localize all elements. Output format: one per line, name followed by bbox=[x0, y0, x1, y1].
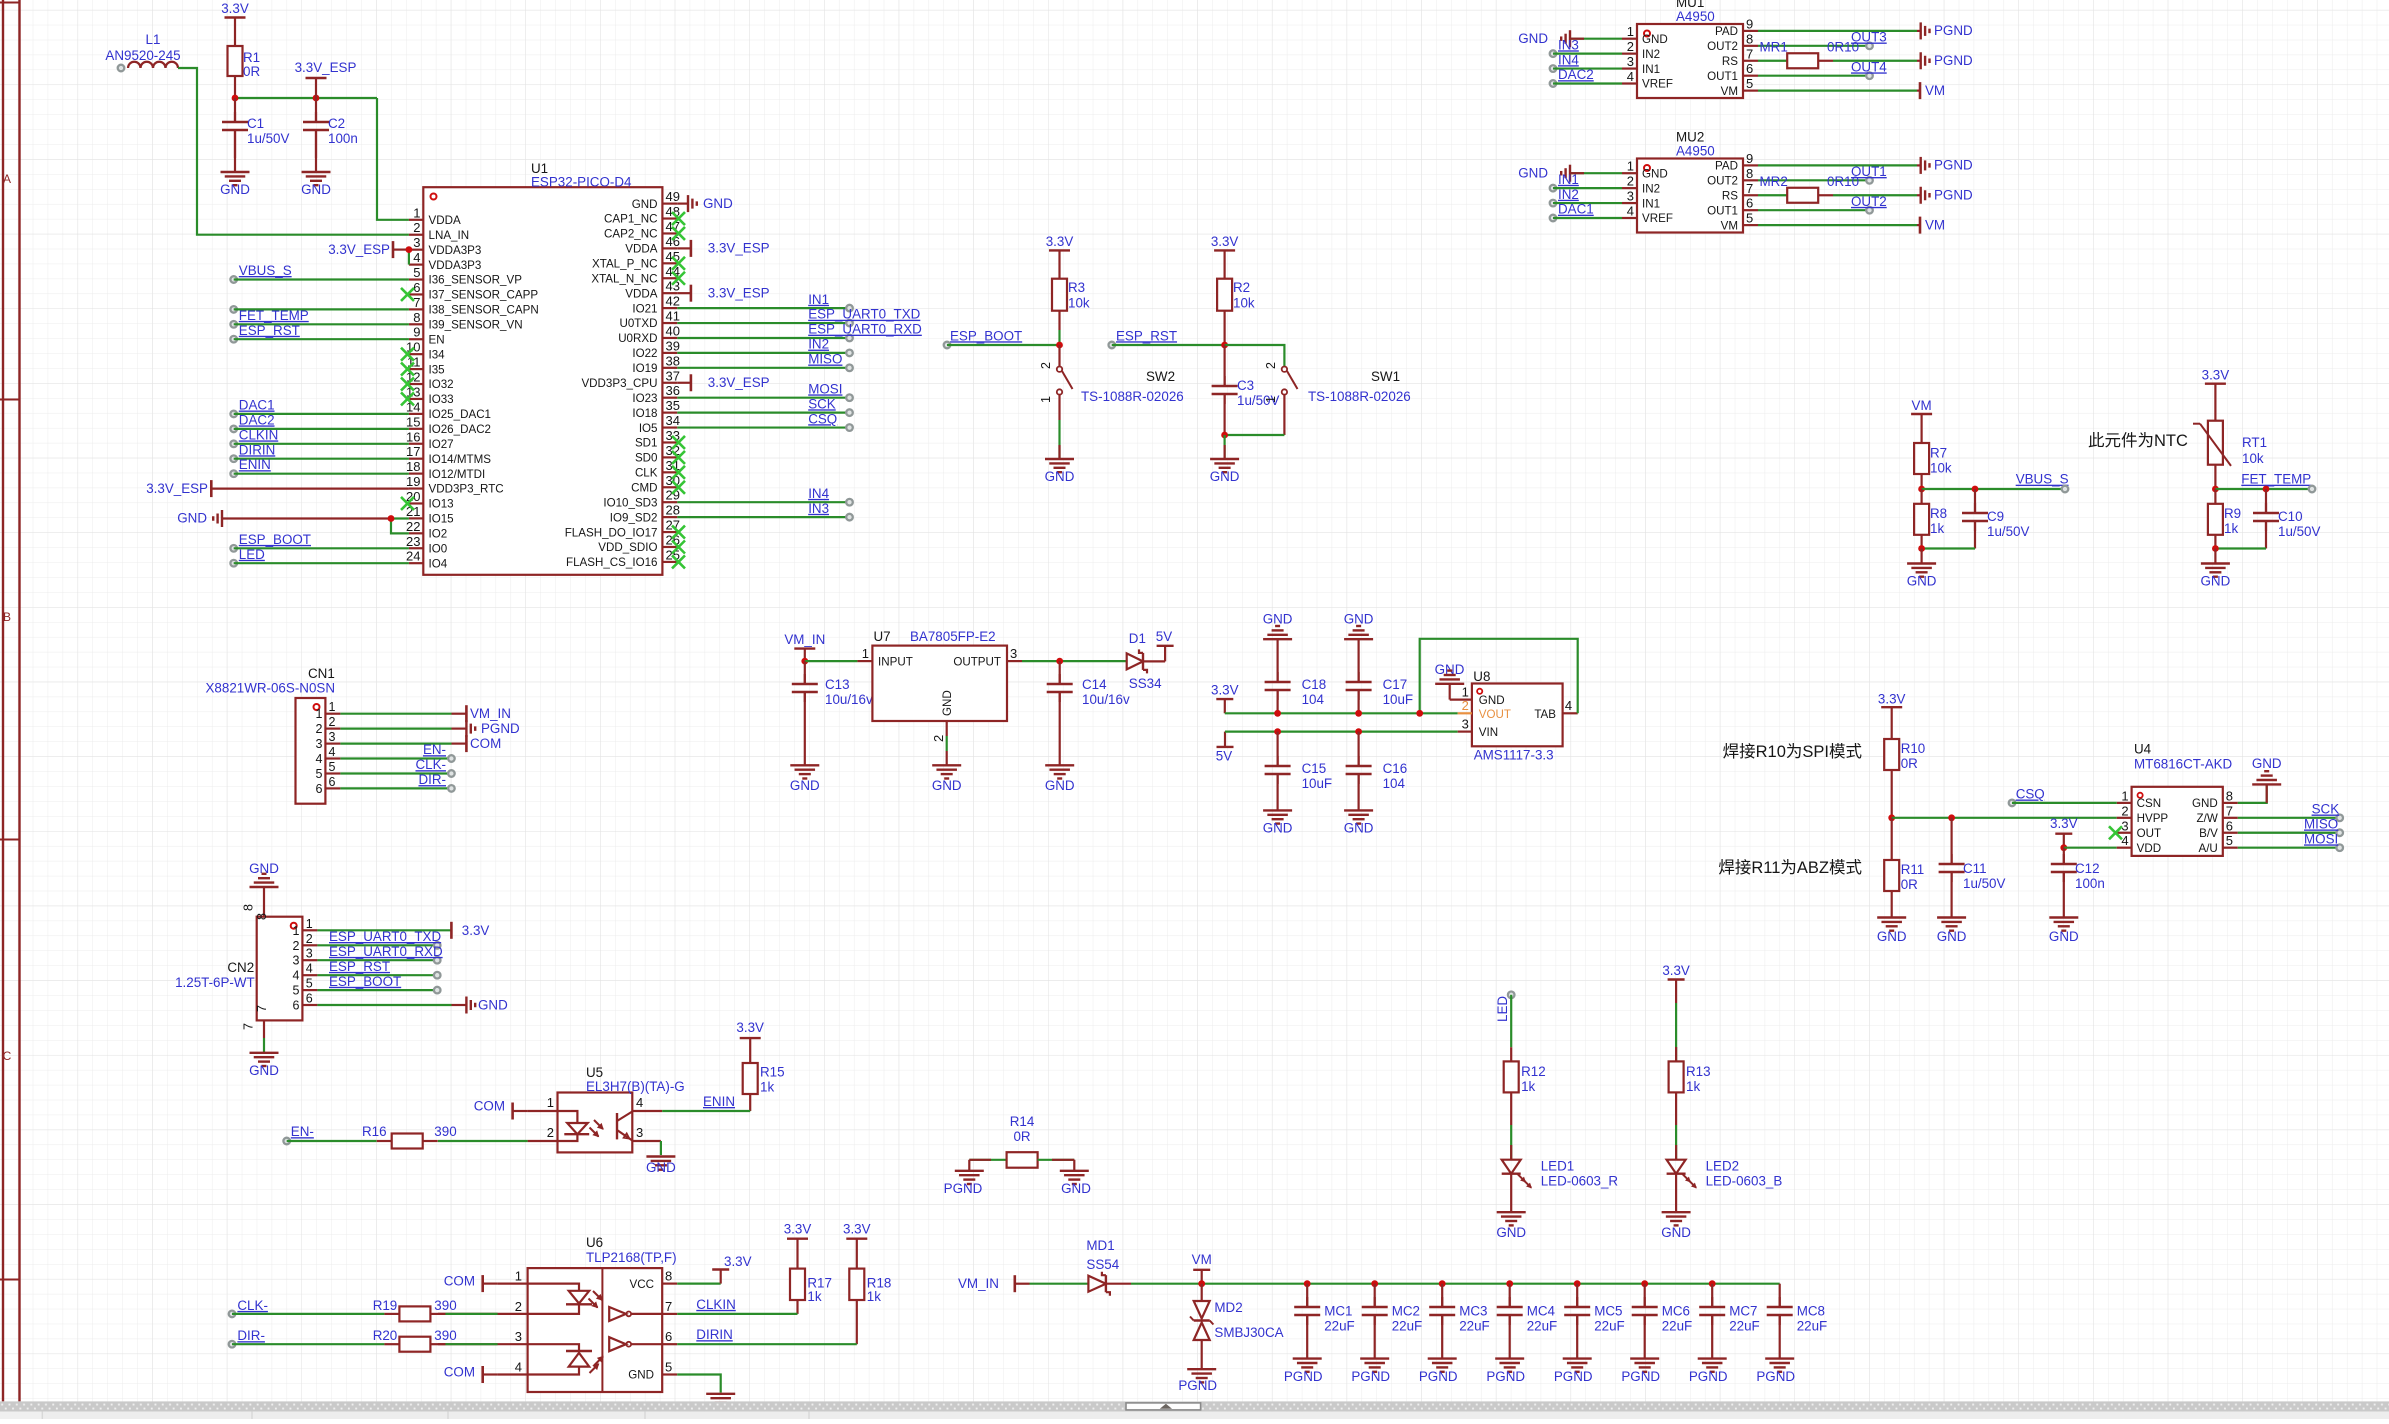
svg-text:100n: 100n bbox=[328, 131, 358, 146]
ground GND under U5 pin3 bbox=[646, 1157, 676, 1176]
U1 pin 12 IO32 bbox=[406, 370, 454, 392]
svg-text:IN3: IN3 bbox=[808, 501, 829, 516]
wire R20 to U6 pin3 bbox=[445, 1343, 497, 1345]
svg-text:COM: COM bbox=[444, 1365, 475, 1380]
svg-text:1: 1 bbox=[862, 646, 869, 661]
junction C11 on HVPP wire bbox=[1948, 814, 1955, 821]
svg-text:C: C bbox=[3, 1049, 12, 1063]
svg-text:GND: GND bbox=[1518, 31, 1548, 46]
power port COM at U6 pin4 bbox=[444, 1365, 498, 1384]
capacitor C14 bbox=[1047, 661, 1130, 751]
svg-text:GND: GND bbox=[1263, 611, 1293, 626]
U6 pin 2 bbox=[438, 1299, 528, 1314]
svg-text:VDDA3P3: VDDA3P3 bbox=[429, 259, 482, 272]
U1 pin 3 VDDA3P3 bbox=[409, 235, 481, 257]
U5 pin 1 bbox=[528, 1095, 558, 1111]
power ground PGND under MD2 bbox=[1178, 1369, 1217, 1393]
U1 pin 21 IO15 bbox=[406, 504, 454, 526]
wire U6 pin5 to ground bbox=[677, 1375, 721, 1393]
svg-text:6: 6 bbox=[306, 992, 313, 1006]
U1 pin 10 I34 bbox=[406, 340, 445, 362]
power ground PGND under MC4 bbox=[1486, 1359, 1525, 1384]
svg-text:2: 2 bbox=[315, 722, 322, 736]
capacitor MC8 22uF bbox=[1767, 1284, 1828, 1359]
svg-text:1k: 1k bbox=[1930, 521, 1944, 536]
svg-text:MC3: MC3 bbox=[1459, 1304, 1487, 1319]
MU1 pin 8 OUT2 bbox=[1707, 31, 1758, 53]
svg-text:VCC: VCC bbox=[630, 1278, 654, 1291]
thermistor RT1 NTC bbox=[2193, 421, 2267, 489]
net label DAC1 at U1 pin14 bbox=[230, 398, 409, 418]
svg-text:37: 37 bbox=[666, 368, 680, 383]
net label ESP_BOOT at U1 pin23 bbox=[230, 532, 409, 552]
svg-text:C15: C15 bbox=[1302, 761, 1327, 776]
svg-text:7: 7 bbox=[2226, 803, 2233, 818]
svg-text:C13: C13 bbox=[825, 677, 850, 692]
svg-text:5: 5 bbox=[1746, 76, 1753, 91]
svg-text:MC1: MC1 bbox=[1324, 1304, 1352, 1319]
svg-text:1: 1 bbox=[292, 924, 299, 938]
svg-text:LED-0603_R: LED-0603_R bbox=[1541, 1174, 1619, 1189]
svg-text:4: 4 bbox=[1627, 69, 1634, 84]
MU1 pin 1 GND bbox=[1622, 24, 1668, 46]
svg-text:3: 3 bbox=[1627, 54, 1634, 69]
svg-text:1.25T-6P-WT: 1.25T-6P-WT bbox=[175, 975, 255, 990]
svg-text:VM_IN: VM_IN bbox=[470, 706, 511, 721]
junction C18 on 3.3V rail bbox=[1274, 710, 1281, 717]
svg-text:GND: GND bbox=[1642, 167, 1668, 180]
svg-text:2: 2 bbox=[292, 939, 299, 953]
svg-text:RS: RS bbox=[1722, 189, 1738, 202]
svg-text:IN1: IN1 bbox=[1642, 197, 1660, 210]
svg-text:3: 3 bbox=[515, 1329, 522, 1344]
svg-text:I34: I34 bbox=[429, 348, 446, 361]
power ground PGND under MC2 bbox=[1351, 1359, 1390, 1384]
svg-text:5: 5 bbox=[413, 265, 420, 280]
U1 pin 43 VDDA bbox=[625, 279, 680, 301]
svg-text:GND: GND bbox=[1479, 694, 1505, 707]
resistor R18 bbox=[849, 1269, 891, 1345]
junction C16 on 5V rail bbox=[1355, 728, 1362, 735]
capacitor C11 bbox=[1939, 818, 2006, 918]
svg-text:VDD3P3_CPU: VDD3P3_CPU bbox=[581, 377, 657, 390]
svg-text:35: 35 bbox=[666, 398, 680, 413]
svg-text:1: 1 bbox=[547, 1095, 554, 1110]
svg-text:RT1: RT1 bbox=[2242, 435, 2267, 450]
ground GND under C14 bbox=[1045, 751, 1075, 793]
svg-text:R15: R15 bbox=[760, 1065, 785, 1080]
capacitor MC6 22uF bbox=[1632, 1284, 1693, 1359]
svg-text:41: 41 bbox=[666, 309, 680, 324]
power ground PGND under R14 left bbox=[944, 1160, 984, 1196]
junction MC3 on VM bus bbox=[1439, 1280, 1446, 1287]
no-connect X on U1 pin 25 bbox=[672, 555, 685, 568]
U1 pin 11 I35 bbox=[407, 355, 445, 377]
svg-text:FET_TEMP: FET_TEMP bbox=[239, 308, 309, 323]
svg-text:22uF: 22uF bbox=[1797, 1319, 1828, 1334]
svg-text:22: 22 bbox=[406, 519, 420, 534]
CN2 pin 1 bbox=[292, 917, 317, 938]
svg-text:IN1: IN1 bbox=[808, 292, 829, 307]
U8 pin 2 VOUT bbox=[1458, 698, 1511, 721]
svg-text:8: 8 bbox=[1746, 31, 1753, 46]
svg-text:MOSI: MOSI bbox=[2304, 831, 2338, 846]
svg-text:MT6816CT-AKD: MT6816CT-AKD bbox=[2134, 757, 2233, 772]
svg-text:3.3V: 3.3V bbox=[843, 1222, 871, 1237]
wire LNA_IN from L1 to U1 pin2 bbox=[178, 68, 409, 235]
svg-text:9: 9 bbox=[1746, 151, 1753, 166]
svg-text:49: 49 bbox=[666, 189, 680, 204]
junction ESP_RST bbox=[1221, 342, 1228, 349]
ground GND under C2 bbox=[301, 140, 331, 197]
wire VM bus bbox=[1131, 1283, 1780, 1285]
sheet border frame left bbox=[0, 0, 20, 1401]
svg-text:CN2: CN2 bbox=[227, 960, 254, 975]
svg-text:R8: R8 bbox=[1930, 506, 1947, 521]
net label DAC2 at MU1 pin4 bbox=[1550, 67, 1622, 87]
net label SCK at U4 pin7 bbox=[2238, 802, 2343, 822]
svg-text:VM_IN: VM_IN bbox=[784, 632, 825, 647]
svg-text:VM: VM bbox=[1925, 83, 1945, 98]
svg-text:104: 104 bbox=[1383, 776, 1406, 791]
no-connect X on U1 pin 11 bbox=[401, 363, 414, 376]
svg-text:5: 5 bbox=[315, 767, 322, 781]
svg-text:I37_SENSOR_CAPP: I37_SENSOR_CAPP bbox=[429, 289, 539, 302]
capacitor MC4 22uF bbox=[1497, 1284, 1558, 1359]
connector CN1 X8821WR-06S-N0SN body bbox=[206, 666, 336, 804]
U1 pin 37 VDD3P3_CPU bbox=[581, 368, 680, 390]
U5 internal LED and phototransistor bbox=[558, 1111, 633, 1141]
LED LED1 LED-0603_R bbox=[1502, 1125, 1619, 1212]
IC MU1 A4950 body bbox=[1637, 0, 1743, 98]
U1 pin 33 SD1 bbox=[635, 428, 680, 450]
power port VM at MU2 pin5 bbox=[1758, 217, 1945, 234]
no-connect X on U1 pin 13 bbox=[401, 392, 414, 405]
svg-text:PGND: PGND bbox=[1934, 23, 1973, 38]
svg-text:ESP_RST: ESP_RST bbox=[239, 323, 300, 338]
svg-text:6: 6 bbox=[2226, 818, 2233, 833]
svg-text:IO21: IO21 bbox=[632, 302, 657, 315]
no-connect X on U1 pin 12 bbox=[401, 378, 414, 391]
U1 pin 2 LNA_IN bbox=[409, 220, 469, 242]
power port COM at U5 pin1 bbox=[474, 1099, 528, 1120]
resistor R1 bbox=[228, 46, 261, 98]
U6 pin 7 bbox=[662, 1299, 677, 1314]
svg-text:3: 3 bbox=[1462, 716, 1469, 731]
svg-text:4: 4 bbox=[292, 969, 299, 983]
svg-text:1k: 1k bbox=[807, 1289, 821, 1304]
svg-text:5V: 5V bbox=[1216, 748, 1232, 763]
no-connect X on U1 pin 26 bbox=[672, 540, 685, 553]
U1 pin 18 IO12/MTDI bbox=[406, 459, 485, 481]
CN2 pin 2 bbox=[292, 932, 317, 953]
svg-text:VREF: VREF bbox=[1642, 78, 1673, 91]
svg-text:1k: 1k bbox=[867, 1289, 881, 1304]
svg-text:3.3V_ESP: 3.3V_ESP bbox=[328, 242, 390, 257]
svg-text:SD0: SD0 bbox=[635, 452, 658, 465]
wire SW1 bottom to C3 bbox=[1225, 434, 1285, 436]
net label DIRIN wire U6 pin6 to R18 bbox=[677, 1327, 857, 1344]
svg-text:GND: GND bbox=[1045, 469, 1075, 484]
svg-text:MD2: MD2 bbox=[1214, 1300, 1242, 1315]
wire ESP_RST to SW1 bbox=[1225, 345, 1285, 366]
wire ESP_BOOT node bbox=[1058, 330, 1060, 345]
svg-text:LED: LED bbox=[1495, 996, 1510, 1022]
power port 3.3V_ESP at U1 pin 43 bbox=[677, 285, 769, 302]
svg-text:VM: VM bbox=[1925, 217, 1945, 232]
no-connect X on U1 pin 47 bbox=[672, 227, 685, 240]
svg-text:22uF: 22uF bbox=[1392, 1319, 1423, 1334]
svg-text:此元件为NTC: 此元件为NTC bbox=[2088, 431, 2188, 450]
U1 pin 27 FLASH_DO_IO17 bbox=[565, 518, 680, 540]
svg-text:IN2: IN2 bbox=[1642, 48, 1660, 61]
net label ESP_UART0_TXD at U1 pin 41 bbox=[677, 307, 920, 327]
junction C12 on VDD wire bbox=[2060, 844, 2067, 851]
resistor MR1 0R10 at MU1 pin7 RS bbox=[1758, 39, 1859, 68]
U1 pin 48 CAP1_NC bbox=[604, 204, 680, 226]
svg-text:GND: GND bbox=[703, 196, 733, 211]
svg-text:1k: 1k bbox=[1686, 1079, 1700, 1094]
svg-text:IO27: IO27 bbox=[429, 438, 454, 451]
svg-text:DAC1: DAC1 bbox=[1558, 202, 1594, 217]
svg-text:5: 5 bbox=[665, 1360, 672, 1375]
junction C3 bottom bbox=[1221, 432, 1228, 439]
power ground PGND under MC5 bbox=[1554, 1359, 1593, 1384]
svg-text:PGND: PGND bbox=[944, 1181, 983, 1196]
MU1 pin 9 PAD bbox=[1715, 16, 1758, 38]
U1 pin 38 IO19 bbox=[632, 353, 680, 375]
svg-text:R12: R12 bbox=[1521, 1064, 1546, 1079]
svg-text:0R10: 0R10 bbox=[1827, 39, 1859, 54]
U5 pin 3 bbox=[632, 1125, 661, 1141]
svg-text:10k: 10k bbox=[1930, 461, 1952, 476]
svg-text:U0TXD: U0TXD bbox=[619, 317, 657, 330]
svg-text:ESP_BOOT: ESP_BOOT bbox=[950, 328, 1022, 343]
net label EN- at CN1 pin4 bbox=[340, 742, 454, 762]
U1 pin 17 IO14/MTMS bbox=[406, 444, 491, 466]
svg-text:C16: C16 bbox=[1383, 761, 1408, 776]
svg-text:IO12/MTDI: IO12/MTDI bbox=[429, 468, 486, 481]
power flag 3.3V (top of R1) bbox=[221, 1, 249, 46]
svg-text:0R: 0R bbox=[1013, 1129, 1030, 1144]
power flag 3.3V (top of R2) bbox=[1211, 234, 1239, 279]
power ground PGND under MC6 bbox=[1621, 1359, 1660, 1384]
svg-text:PGND: PGND bbox=[1934, 158, 1973, 173]
svg-text:PGND: PGND bbox=[1934, 187, 1973, 202]
svg-text:C3: C3 bbox=[1237, 378, 1254, 393]
U6 pin 4 bbox=[498, 1360, 528, 1375]
svg-text:22uF: 22uF bbox=[1324, 1319, 1355, 1334]
capacitor C1 bbox=[222, 98, 290, 158]
U1 pin 34 IO5 bbox=[639, 413, 680, 435]
svg-text:R3: R3 bbox=[1068, 280, 1085, 295]
resistor R12 bbox=[1504, 1047, 1546, 1125]
svg-text:7: 7 bbox=[255, 1005, 269, 1012]
no-connect X on U1 pin 6 bbox=[401, 288, 414, 301]
svg-text:R10: R10 bbox=[1901, 741, 1926, 756]
svg-text:7: 7 bbox=[1746, 46, 1753, 61]
svg-text:3: 3 bbox=[315, 737, 322, 751]
svg-text:GND: GND bbox=[2192, 797, 2218, 810]
capacitor C3 bbox=[1212, 345, 1280, 435]
U1 pin 31 CLK bbox=[635, 458, 680, 480]
IC U4 MT6816CT-AKD body bbox=[2132, 742, 2233, 856]
svg-text:GND: GND bbox=[1061, 1181, 1091, 1196]
power port 3.3V_ESP at U1 pin3 bbox=[328, 241, 409, 258]
svg-text:CSN: CSN bbox=[2137, 797, 2161, 810]
svg-text:GND: GND bbox=[1344, 820, 1374, 835]
junction at C10 top bbox=[2263, 486, 2270, 493]
U7 pin 1 INPUT bbox=[857, 646, 912, 669]
svg-text:IN4: IN4 bbox=[1558, 52, 1579, 67]
U1 pin 1 VDDA bbox=[409, 205, 461, 227]
svg-text:X8821WR-06S-N0SN: X8821WR-06S-N0SN bbox=[206, 681, 336, 696]
net label FET_TEMP at U1 pin8 bbox=[230, 308, 409, 328]
U1 pin 40 U0RXD bbox=[618, 323, 680, 345]
svg-text:IN2: IN2 bbox=[1558, 187, 1579, 202]
svg-text:ESP_UART0_RXD: ESP_UART0_RXD bbox=[808, 322, 922, 337]
ground GND under U7 bbox=[932, 751, 962, 793]
junction C17 on 3.3V rail bbox=[1355, 710, 1362, 717]
svg-text:2: 2 bbox=[306, 932, 313, 946]
net label IN1 at U1 pin 42 bbox=[677, 292, 853, 312]
svg-text:1: 1 bbox=[2121, 788, 2128, 803]
power ground PGND under MC8 bbox=[1756, 1359, 1795, 1384]
net label CSQ at U1 pin 34 bbox=[677, 411, 853, 431]
LED LED2 LED-0603_B bbox=[1667, 1125, 1783, 1212]
ground GND under R14 right bbox=[1060, 1160, 1091, 1196]
svg-text:SCK: SCK bbox=[808, 396, 836, 411]
svg-text:10k: 10k bbox=[1233, 296, 1255, 311]
svg-text:3: 3 bbox=[292, 954, 299, 968]
net label SCK at U1 pin 35 bbox=[677, 396, 853, 416]
svg-text:R13: R13 bbox=[1686, 1064, 1711, 1079]
svg-text:AMS1117-3.3: AMS1117-3.3 bbox=[1474, 748, 1554, 763]
wire R19 to U6 pin2 bbox=[445, 1313, 497, 1315]
ground GND under R2 bbox=[1210, 435, 1240, 484]
net label CLK- at CN1 pin5 bbox=[340, 757, 454, 777]
svg-text:IN4: IN4 bbox=[808, 486, 829, 501]
net label OUT1 at MU2 pin8 OUT2 bbox=[1758, 164, 1887, 184]
net label IN1 at MU2 pin2 bbox=[1550, 172, 1622, 192]
net label MISO at U4 pin6 bbox=[2238, 816, 2343, 836]
svg-text:39: 39 bbox=[666, 338, 680, 353]
junction VBUS_S at R7/R8 bbox=[1918, 486, 1925, 493]
U6 pin 6 bbox=[662, 1329, 677, 1344]
svg-text:IO13: IO13 bbox=[429, 498, 454, 511]
svg-text:U4: U4 bbox=[2134, 742, 2152, 757]
svg-text:IO5: IO5 bbox=[639, 422, 658, 435]
svg-text:19: 19 bbox=[406, 474, 420, 489]
U1 pin 41 U0TXD bbox=[619, 309, 679, 331]
svg-text:390: 390 bbox=[434, 1298, 456, 1313]
svg-text:4: 4 bbox=[2121, 833, 2128, 848]
svg-text:PGND: PGND bbox=[1486, 1369, 1525, 1384]
wire U5 pin3 to ground bbox=[660, 1141, 662, 1155]
power port COM at CN1 pin3 bbox=[340, 735, 501, 752]
power port VM_IN at U7 input bbox=[784, 632, 825, 661]
net label CLKIN wire U6 pin7 to R17 bbox=[677, 1297, 797, 1314]
MU2 pin 7 RS bbox=[1722, 181, 1758, 203]
svg-text:IO10_SD3: IO10_SD3 bbox=[603, 496, 657, 509]
svg-text:C11: C11 bbox=[1963, 861, 1987, 876]
svg-text:3.3V: 3.3V bbox=[1211, 234, 1239, 249]
U1 pin 8 I39_SENSOR_VN bbox=[409, 310, 523, 332]
svg-text:IO15: IO15 bbox=[429, 513, 454, 526]
svg-text:4: 4 bbox=[329, 745, 336, 759]
svg-text:R7: R7 bbox=[1930, 446, 1947, 461]
svg-text:21: 21 bbox=[406, 504, 420, 519]
svg-text:9: 9 bbox=[413, 325, 420, 340]
svg-text:VM: VM bbox=[1912, 398, 1932, 413]
wire 3.3V_ESP down to U1 pin1 bbox=[377, 98, 409, 220]
push button SW1 bbox=[1264, 362, 1411, 435]
junction MC6 on VM bus bbox=[1641, 1280, 1648, 1287]
U1 pin 39 IO22 bbox=[632, 338, 680, 360]
U1 pin 46 VDDA bbox=[625, 234, 680, 256]
svg-text:LED1: LED1 bbox=[1541, 1159, 1575, 1174]
ground GND above C18 bbox=[1263, 611, 1293, 682]
capacitor C12 bbox=[2051, 848, 2105, 918]
no-connect X on U4 pin3 bbox=[2109, 826, 2122, 839]
ground GND above C17 bbox=[1344, 611, 1374, 682]
U1 pin 23 IO0 bbox=[406, 534, 447, 556]
horizontal scrollbar bbox=[0, 1401, 2389, 1419]
svg-text:6: 6 bbox=[329, 775, 336, 789]
wire R16 to U5 pin2 bbox=[438, 1140, 528, 1142]
svg-text:3.3V: 3.3V bbox=[2050, 816, 2078, 831]
svg-text:A: A bbox=[3, 172, 11, 186]
svg-text:2: 2 bbox=[1039, 362, 1053, 369]
U1 pin 24 IO4 bbox=[406, 549, 448, 571]
svg-text:PGND: PGND bbox=[1284, 1369, 1323, 1384]
svg-text:5: 5 bbox=[329, 760, 336, 774]
ground port GND at CN2 pin6 bbox=[317, 997, 508, 1014]
TVS diode MD2 SMBJ30CA bbox=[1190, 1284, 1284, 1370]
svg-text:L1: L1 bbox=[146, 32, 161, 47]
svg-text:R14: R14 bbox=[1010, 1114, 1035, 1129]
svg-text:1: 1 bbox=[1627, 159, 1634, 174]
net label VBUS_S at U1 pin5 bbox=[230, 263, 409, 283]
MU2 pin 1 GND bbox=[1622, 159, 1668, 181]
resistor R11 bbox=[1884, 818, 1924, 918]
svg-text:U0RXD: U0RXD bbox=[618, 332, 657, 345]
no-connect X on U1 pin 20 bbox=[401, 497, 414, 510]
svg-text:3.3V_ESP: 3.3V_ESP bbox=[146, 481, 208, 496]
svg-text:3.3V: 3.3V bbox=[1662, 963, 1690, 978]
power port 3.3V_ESP at U1 pin 37 bbox=[677, 374, 769, 391]
svg-text:3.3V_ESP: 3.3V_ESP bbox=[708, 375, 770, 390]
svg-text:FLASH_CS_IO16: FLASH_CS_IO16 bbox=[566, 556, 658, 569]
diode MD1 SS54 bbox=[1086, 1238, 1131, 1296]
svg-text:3.3V: 3.3V bbox=[724, 1254, 752, 1269]
junction MD2 on VM bus bbox=[1198, 1280, 1205, 1287]
resistor R9 bbox=[2208, 489, 2241, 549]
svg-text:IN2: IN2 bbox=[1642, 182, 1660, 195]
svg-text:PGND: PGND bbox=[481, 721, 520, 736]
svg-text:DIR-: DIR- bbox=[237, 1328, 265, 1343]
junction at R1/C1 bbox=[232, 95, 239, 102]
ground GND under C16 bbox=[1344, 796, 1374, 835]
svg-text:C17: C17 bbox=[1383, 677, 1408, 692]
svg-text:GND: GND bbox=[632, 198, 658, 211]
svg-text:GND: GND bbox=[1642, 33, 1668, 46]
svg-text:MC2: MC2 bbox=[1392, 1304, 1420, 1319]
capacitor C10 bbox=[2253, 489, 2321, 549]
svg-text:0R: 0R bbox=[243, 64, 260, 79]
net label IN2 at U1 pin 39 bbox=[677, 337, 853, 357]
svg-text:3: 3 bbox=[2121, 818, 2128, 833]
